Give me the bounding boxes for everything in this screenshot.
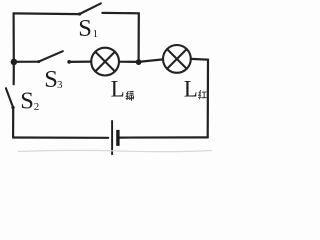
label L2 (L red)	[184, 77, 198, 102]
lamp L1 (green)	[91, 48, 119, 76]
label L1 (L green)	[111, 76, 125, 101]
node B junction dot (left wire / middle branch)	[11, 59, 18, 66]
svg-text:1: 1	[93, 28, 99, 40]
wire: left lower vertical (S2 bottom contact to bottom-left corner)	[12, 108, 14, 138]
scan artifact: faint page shadow line	[18, 150, 212, 151]
wire: bottom right segment to battery	[120, 136, 208, 138]
svg-text:2: 2	[34, 101, 40, 113]
label S3	[44, 66, 63, 93]
switch S1	[78, 3, 101, 15]
svg-text:S: S	[44, 66, 58, 93]
switch S3	[37, 51, 71, 64]
battery: long thin plate (positive)	[111, 120, 113, 155]
subscript glyph "lv" (green)	[126, 92, 134, 101]
wire: top-left horizontal to switch S1 left contact	[14, 12, 80, 15]
wire: bottom left segment from battery to bottom-left corner	[13, 136, 108, 139]
wire: middle branch from node B to switch S3	[14, 61, 39, 63]
svg-text:L: L	[184, 77, 198, 102]
svg-text:L: L	[111, 76, 125, 101]
subscript glyph "hong" (red)	[199, 91, 207, 99]
wire: left vertical (top-left corner down to node B)	[13, 13, 15, 61]
switch S2	[6, 88, 15, 109]
wire: left vertical (node B down to S2 top contact)	[13, 62, 15, 85]
label S1	[78, 15, 98, 42]
svg-text:S: S	[78, 15, 92, 42]
wire: node A to lamp L2	[139, 59, 163, 62]
battery: short thick plate (negative)	[116, 130, 119, 146]
lamp L2 (red)	[163, 45, 191, 73]
wire: top right segment and drop to node A	[102, 13, 138, 62]
node A junction dot	[136, 59, 142, 65]
wire: lamp L1 to node A	[119, 61, 139, 63]
svg-text:S: S	[20, 88, 34, 115]
svg-text:3: 3	[57, 79, 63, 91]
wire: lamp L2 to top-right corner and right vertical down	[191, 59, 208, 137]
label S2	[20, 88, 39, 115]
wire: S3 right contact to lamp L1	[69, 60, 91, 63]
